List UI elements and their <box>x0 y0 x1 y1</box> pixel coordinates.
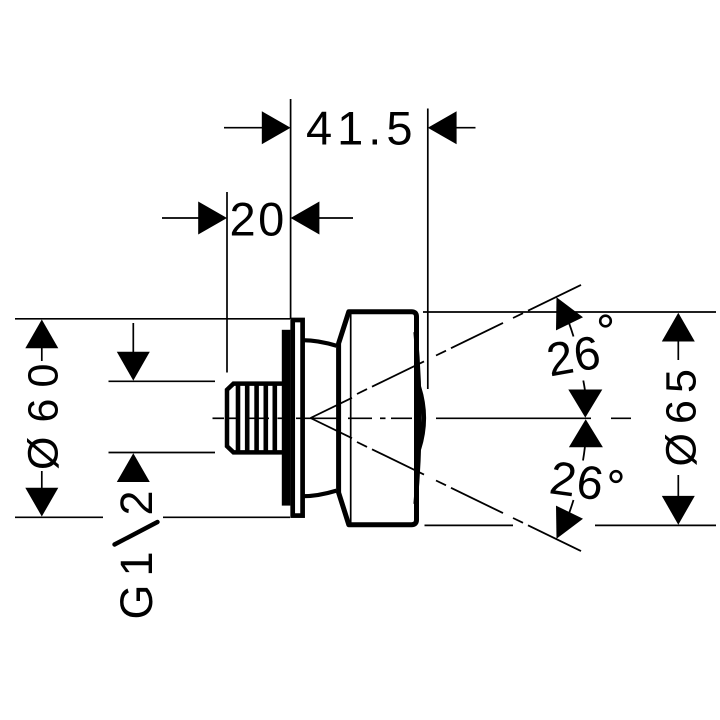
extension line bottom left part <box>425 524 514 526</box>
extension line left (thread start) <box>226 192 228 373</box>
dimension dia 65 <box>423 312 716 525</box>
dimension 41.5 <box>224 99 476 389</box>
arrowhead G1/2 up <box>117 453 150 482</box>
dim line above <box>132 323 134 353</box>
dimension 20 <box>162 192 353 373</box>
neck top edge <box>303 340 337 346</box>
head body outline <box>339 312 417 525</box>
arrowhead dia65 up <box>662 313 695 342</box>
horizontal centerline <box>213 417 632 419</box>
extension line right (nozzle face) <box>427 109 429 390</box>
arrowhead dia60 down <box>25 488 58 517</box>
angle dimension arc segments <box>569 324 585 513</box>
arrowhead 20 right <box>291 202 320 235</box>
extension line bottom right part <box>163 516 290 518</box>
arrowhead dia60 up <box>25 320 58 349</box>
dimension dia 60 <box>15 319 290 518</box>
degree circle lower <box>611 471 622 482</box>
dim tail left <box>162 217 200 219</box>
face nozzle boss lens <box>419 387 424 449</box>
arrowhead 41.5 right <box>428 111 457 144</box>
arrowhead 26 deg center down <box>568 390 602 418</box>
dim tail right <box>319 217 353 219</box>
dim line lower segment <box>41 471 43 490</box>
extension line left (plate face) <box>290 99 292 319</box>
extension line thread bottom <box>109 452 216 454</box>
svg-text:Ø60: Ø60 <box>20 364 68 470</box>
svg-text:26: 26 <box>547 450 608 510</box>
arrowhead 26 deg lower (at spray line) <box>556 506 583 539</box>
arrowhead 41.5 left <box>262 111 291 144</box>
svg-text:20: 20 <box>230 193 287 246</box>
svg-text:G1: G1 <box>111 551 162 619</box>
arrowhead 20 left <box>198 202 227 235</box>
head chamfer crease line <box>350 312 352 524</box>
dim line upper segment <box>677 340 679 360</box>
arrowhead dia65 down <box>662 496 695 525</box>
dim line lower segment <box>677 475 679 497</box>
lower spray axis line 26 deg <box>311 418 582 551</box>
arrowhead 26 deg upper (at spray line) <box>556 297 583 330</box>
escutcheon plate <box>293 320 303 516</box>
label G1/2 slash <box>115 522 158 545</box>
extension line bottom right part <box>595 524 716 526</box>
extension line top <box>423 311 716 313</box>
thread G1/2 outline <box>227 384 283 453</box>
head face dome arc <box>416 332 420 504</box>
wall flange bar <box>282 330 291 506</box>
svg-text:2: 2 <box>111 490 162 515</box>
svg-text:41.5: 41.5 <box>306 102 417 155</box>
neck bottom edge <box>303 491 337 497</box>
upper spray axis line 26 deg <box>311 285 582 418</box>
arrowhead 26 deg center up <box>569 419 603 447</box>
svg-text:26: 26 <box>543 325 606 387</box>
dimension G1/2 <box>109 323 216 453</box>
dim tail left <box>224 127 263 129</box>
degree circle upper <box>600 316 611 327</box>
extension line top <box>15 318 290 320</box>
thread crest hatch lines <box>238 383 275 452</box>
extension line thread top <box>109 380 216 382</box>
extension line bottom left part <box>15 516 103 518</box>
arrowhead G1/2 down <box>117 352 150 381</box>
dim line upper segment <box>41 346 43 361</box>
dim tail right <box>456 127 476 129</box>
svg-text:Ø65: Ø65 <box>658 369 706 466</box>
